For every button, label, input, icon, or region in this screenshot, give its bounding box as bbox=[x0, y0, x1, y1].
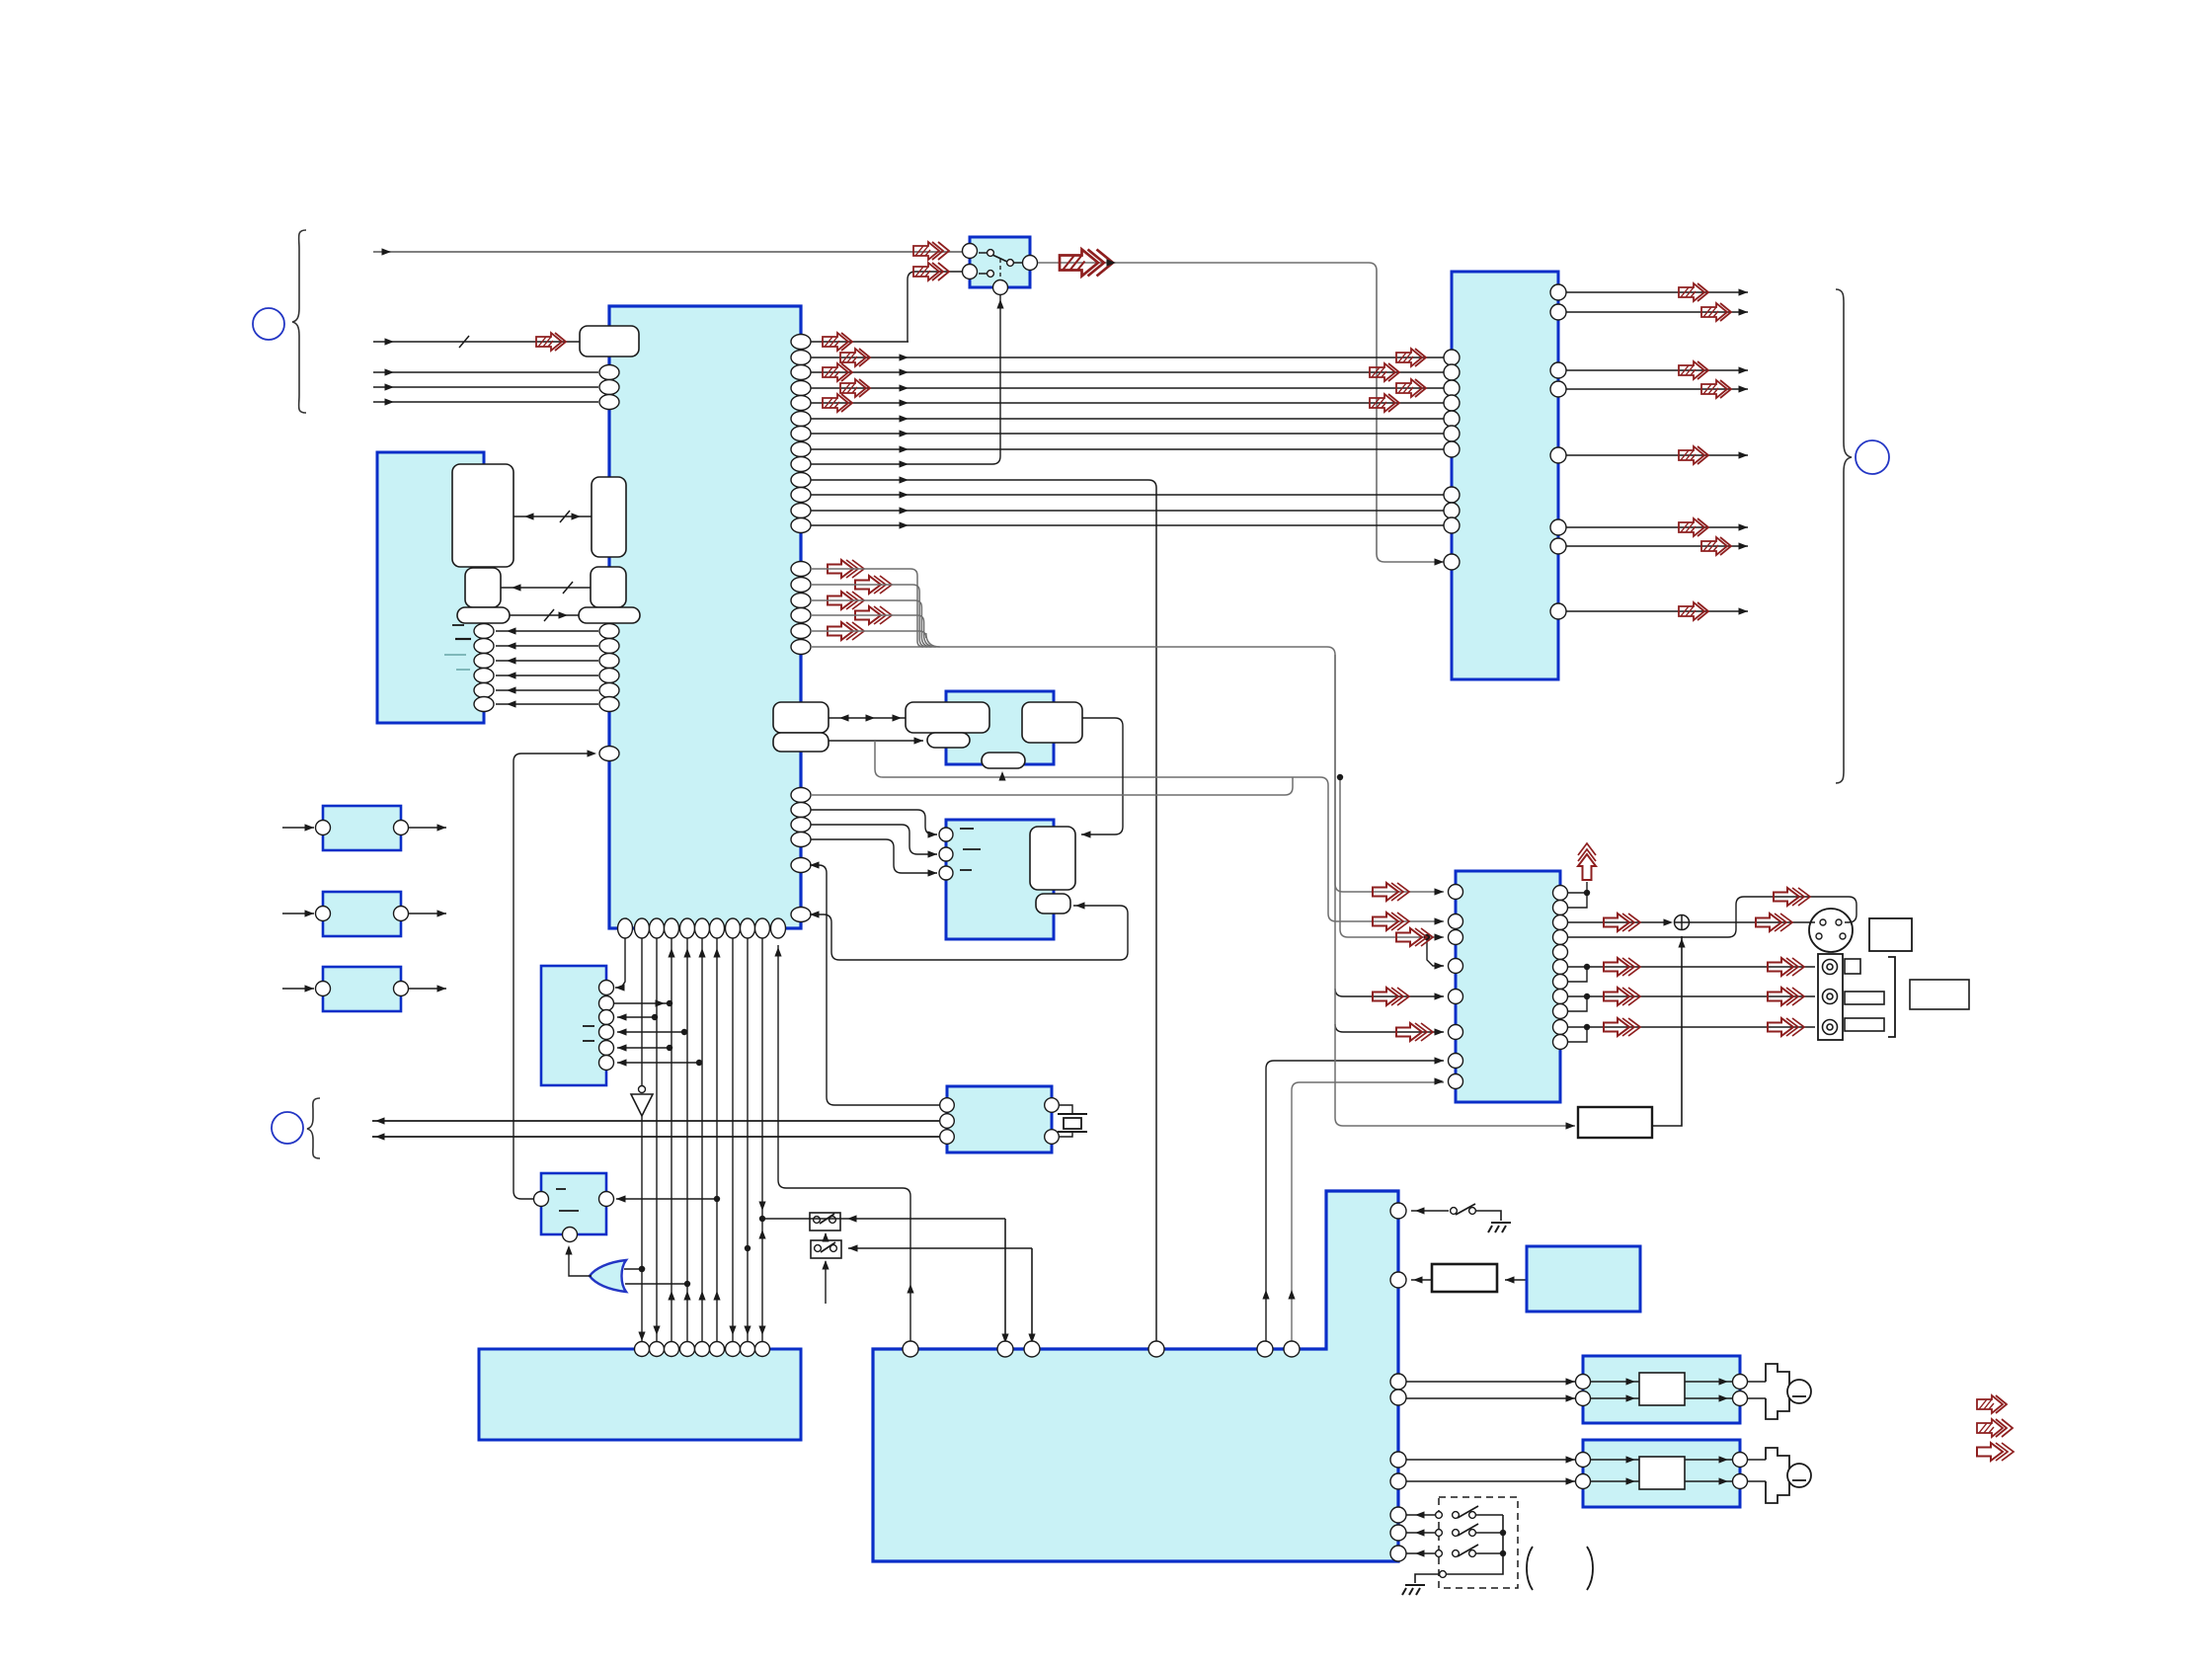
amp2 spk wire 1 bbox=[1748, 1459, 1766, 1461]
speaker symbol 1 bbox=[1766, 1364, 1789, 1419]
serial wire 2 bbox=[811, 585, 927, 647]
amp1 out wire 2 bbox=[1685, 1397, 1732, 1399]
bus ctrl bbox=[510, 614, 579, 616]
mux switch block bbox=[970, 237, 1030, 287]
keyboard pin 2 bbox=[650, 1342, 665, 1357]
label dash d3 bbox=[444, 654, 466, 656]
arrowhead sensor block 3 in bbox=[305, 985, 315, 992]
arrowhead mem 3 bbox=[507, 657, 516, 664]
xlr connector bbox=[1809, 909, 1853, 952]
IC bottom pin 2 bbox=[635, 918, 650, 938]
arrowhead IC-F g2 1 bbox=[900, 491, 909, 498]
DAC right pin 4 bbox=[1553, 930, 1568, 945]
trunk keyboard 9 bbox=[761, 938, 763, 1341]
IC left pin clk3 bbox=[599, 395, 619, 410]
amp2 wire in 1 bbox=[1406, 1459, 1575, 1461]
rca small square bbox=[1845, 959, 1860, 974]
arrowhead IC-F 5 bbox=[900, 415, 909, 422]
amp1 out wire 1 bbox=[1685, 1381, 1732, 1383]
arrowhead relay1 feed bbox=[1001, 1334, 1008, 1344]
remote lever 3 bbox=[1458, 1545, 1478, 1556]
serial wire 5 bbox=[811, 631, 940, 647]
mux pin in2 bbox=[963, 265, 978, 279]
arrowhead servo 1 bbox=[928, 831, 938, 837]
remote gnd contact bbox=[1440, 1571, 1447, 1578]
ground remote bbox=[1402, 1585, 1425, 1595]
expander right pin 8 bbox=[1550, 603, 1566, 619]
IC left mem pin 6 bbox=[599, 697, 619, 712]
arrowhead input A bbox=[382, 248, 392, 255]
wire pll bidir bbox=[829, 717, 906, 719]
relay select 2 bbox=[825, 1261, 827, 1304]
arrowhead amp2 g2 bbox=[1626, 1477, 1636, 1484]
IC right pin g2-3 bbox=[791, 594, 811, 608]
trunk inverter upper bbox=[641, 938, 643, 1086]
arrowhead remote 2 bbox=[1415, 1529, 1425, 1536]
rca label 3 bbox=[1845, 1018, 1884, 1031]
bus slash addr bbox=[560, 511, 570, 522]
expander left pin 4 bbox=[1444, 395, 1460, 411]
arrowhead G3 bbox=[617, 1013, 627, 1020]
junction dac out1 bbox=[1584, 890, 1590, 896]
wire IC-F g2 1 bbox=[811, 494, 1444, 496]
IC pin box pll b bbox=[773, 733, 829, 752]
arrowhead keyboard 8 bbox=[744, 1326, 750, 1336]
mute control block bbox=[541, 1173, 606, 1234]
arrowhead mux out mid bbox=[1107, 259, 1117, 266]
remote join 1 bbox=[1475, 1514, 1503, 1516]
wire G4 in bbox=[617, 1031, 684, 1033]
amp2 right pin 1 bbox=[1733, 1453, 1748, 1468]
resistor network box bbox=[1578, 1107, 1652, 1138]
arrowhead IC-F g2 2 bbox=[900, 507, 909, 514]
ground power switch bbox=[1488, 1223, 1511, 1232]
expander out wire 6 bbox=[1566, 526, 1748, 528]
mute pin bottom bbox=[563, 1228, 578, 1242]
power top pin 5 bbox=[1257, 1341, 1273, 1357]
remote join 3 bbox=[1475, 1552, 1503, 1554]
DAC left pin 7 bbox=[1449, 1054, 1463, 1069]
signal arrow DAC in 6 bbox=[1396, 1023, 1433, 1041]
arrowhead amp1 o1 bbox=[1719, 1378, 1729, 1385]
wire w4 to servo bbox=[1081, 718, 1123, 834]
power right pin 2 bbox=[1390, 1272, 1406, 1288]
IC right pin g1-1 bbox=[791, 335, 811, 350]
junction relay1 tap bbox=[759, 1216, 765, 1222]
arrowhead IC-F 7 bbox=[900, 445, 909, 452]
junction or input1 bbox=[639, 1266, 645, 1272]
expander left pin g2-2 bbox=[1444, 503, 1460, 518]
arrowhead into IC lcd pin bbox=[588, 750, 597, 756]
wire resistor to sum bbox=[1652, 936, 1682, 1126]
trunk keyboard 8 bbox=[747, 938, 749, 1341]
relay1 c2 bbox=[829, 1217, 836, 1224]
speaker circle 2 bbox=[1787, 1464, 1811, 1487]
pin label xtal in bbox=[580, 326, 639, 357]
xtal oscillator block bbox=[947, 1086, 1052, 1152]
arrowhead or to mute bbox=[565, 1245, 572, 1255]
arrowhead IC-F 6 bbox=[900, 430, 909, 437]
power switch c2 bbox=[1469, 1208, 1476, 1215]
legend arrow type C bbox=[1977, 1443, 2014, 1461]
xlr pin 3 bbox=[1816, 933, 1822, 939]
mux contact a bbox=[987, 250, 994, 257]
bus wire IC-F 4 bbox=[811, 402, 1444, 404]
expander right pin 2 bbox=[1550, 304, 1566, 320]
arrowhead into pll box3 bbox=[998, 771, 1005, 781]
key input block bbox=[479, 1349, 801, 1440]
arrowhead into mute bbox=[616, 1195, 626, 1202]
legend arrow type A bbox=[1977, 1395, 2007, 1413]
arrowhead trunk9 down bbox=[758, 1202, 765, 1212]
signal arrow rca 3 b bbox=[1768, 1018, 1804, 1036]
sum node bbox=[1675, 915, 1690, 930]
arrowhead data left bbox=[512, 584, 521, 591]
wire input E bbox=[373, 401, 598, 403]
keyboard pin 7 bbox=[726, 1342, 741, 1357]
IC right pin g1-4 bbox=[791, 381, 811, 396]
arrowhead input C bbox=[385, 368, 395, 375]
mux contact c bbox=[1007, 260, 1014, 267]
arrowhead keyboard up2 6 bbox=[713, 948, 720, 958]
expander left pin 6 bbox=[1444, 426, 1460, 441]
IC bottom pin 4 bbox=[665, 918, 679, 938]
amplifier block 1 bbox=[1583, 1356, 1740, 1423]
power right pin 9 bbox=[1390, 1546, 1406, 1561]
arrowhead into resistor bbox=[1505, 1276, 1515, 1283]
RAM label box bbox=[452, 464, 513, 567]
arrowhead expander out 4 bbox=[1739, 385, 1749, 392]
signal arrow row4 bbox=[840, 379, 870, 397]
IC bottom pin 3 bbox=[650, 918, 665, 938]
sensor block 3 pin out bbox=[394, 982, 409, 996]
IC right pin g2-6 bbox=[791, 640, 811, 655]
DAC right pin 6 bbox=[1553, 960, 1568, 975]
arrowhead into servo box bbox=[1081, 831, 1091, 837]
display bus line 1 bbox=[372, 1120, 939, 1122]
arrowhead amp1 o2 bbox=[1719, 1394, 1729, 1401]
serial wire 3 bbox=[811, 600, 931, 647]
mute pin right bbox=[599, 1192, 614, 1207]
crystal plate bottom bbox=[1058, 1131, 1087, 1133]
signal arrow rca 1 a bbox=[1604, 958, 1640, 976]
arrowhead relay sel1 bbox=[822, 1232, 829, 1242]
amp1 wire in 1 bbox=[1406, 1381, 1575, 1383]
D right pin 4 bbox=[474, 669, 494, 683]
signal arrow exp out 3 bbox=[1679, 361, 1708, 379]
G pin 6 bbox=[599, 1056, 614, 1071]
servo pin 3 bbox=[939, 866, 953, 880]
relay1 feed vert bbox=[1004, 1219, 1006, 1349]
D right pin 2 bbox=[474, 639, 494, 654]
brace input group bbox=[292, 230, 306, 413]
signal arrow rca 2 a bbox=[1604, 988, 1640, 1005]
IC right pin g1-13 bbox=[791, 518, 811, 533]
mux wire in2 elbow bbox=[908, 272, 963, 342]
wire row10 trunk bbox=[811, 480, 1156, 1349]
sensor block 2 wire out bbox=[409, 913, 446, 914]
relay select 1 bbox=[825, 1233, 827, 1237]
mute pin left bbox=[534, 1192, 549, 1207]
signal arrow row2 bbox=[840, 349, 870, 366]
arrowhead amp2 in1 bbox=[1566, 1456, 1576, 1463]
remote c1b bbox=[1453, 1512, 1460, 1519]
expander out wire 4 bbox=[1566, 388, 1748, 390]
arrowhead input B bbox=[385, 338, 395, 345]
arrowhead display 2 bbox=[375, 1133, 385, 1140]
arrowhead into expander pin bbox=[1435, 558, 1445, 565]
mux out stub bbox=[1013, 262, 1023, 264]
sense return bbox=[778, 945, 910, 1341]
node circle display bbox=[272, 1112, 303, 1144]
relay box 1 bbox=[810, 1213, 840, 1231]
wire xtal osc to IC bbox=[810, 865, 940, 1105]
amp1 right pin 2 bbox=[1733, 1391, 1748, 1406]
bracket right bbox=[1888, 957, 1895, 1037]
xlr pin 1 bbox=[1820, 919, 1826, 925]
wire rca stub 3 bbox=[1568, 1027, 1587, 1042]
arrowhead amp2 o2 bbox=[1719, 1477, 1729, 1484]
wire mem 4 bbox=[496, 675, 598, 676]
IC pin box ctrl bbox=[579, 607, 640, 623]
G pin 3 bbox=[599, 1010, 614, 1025]
G pin 5 bbox=[599, 1041, 614, 1056]
mute dash 1 bbox=[556, 1188, 566, 1190]
signal arrow xlr top bbox=[1756, 913, 1792, 931]
DAC right pin 10 bbox=[1553, 1020, 1568, 1035]
arrowhead sensor block 1 out bbox=[437, 824, 447, 831]
K pin 2 bbox=[940, 1114, 955, 1129]
IC right pin g2-1 bbox=[791, 562, 811, 577]
junction inverter or bbox=[639, 1266, 645, 1272]
expander left pin 2 bbox=[1444, 364, 1460, 380]
arrowhead IC-F 4 bbox=[900, 399, 909, 406]
junction relay2 tap bbox=[745, 1245, 750, 1251]
arrowhead keyboard up 6 bbox=[713, 1291, 720, 1301]
arrowhead amp1 in2 bbox=[1566, 1394, 1576, 1401]
amp1 int wire 1 bbox=[1591, 1381, 1639, 1383]
bus wire IC-F 2 bbox=[811, 371, 1444, 373]
remote c1a bbox=[1436, 1512, 1443, 1519]
amplifier block 2 bbox=[1583, 1440, 1740, 1507]
arrowhead servo 2 bbox=[928, 850, 938, 857]
PLL block bbox=[946, 691, 1054, 764]
junction trunk mute bbox=[714, 1196, 720, 1202]
arrowhead display 1 bbox=[375, 1117, 385, 1124]
crystal body bbox=[1064, 1118, 1081, 1129]
arrowhead IC-F g2 3 bbox=[900, 521, 909, 528]
trunk keyboard 4 bbox=[686, 938, 688, 1341]
arrowhead dac row6 bbox=[1435, 1028, 1445, 1035]
servo block bbox=[946, 820, 1054, 939]
junction dac row3 top bbox=[1337, 774, 1343, 780]
arrowhead addr right bbox=[572, 513, 582, 519]
label dash d1 bbox=[452, 624, 464, 626]
sensor block 1 bbox=[323, 806, 401, 850]
DAC left pin 6 bbox=[1449, 1025, 1463, 1040]
rca label 2 bbox=[1845, 992, 1884, 1004]
arrowhead dac row7 bbox=[1435, 1057, 1445, 1064]
display driver block bbox=[541, 966, 606, 1085]
wire IC-F g2 2 bbox=[811, 510, 1444, 512]
wire dac row3 bbox=[1340, 777, 1444, 937]
bus wire IC-F 6 bbox=[811, 433, 1444, 435]
signal arrow exp out 4 bbox=[1701, 380, 1731, 398]
arrowhead keyboard 2 bbox=[653, 1326, 660, 1336]
arrowhead pll mid bbox=[866, 714, 876, 721]
remote gnd wire bbox=[1415, 1574, 1439, 1583]
remote c2a bbox=[1436, 1530, 1443, 1537]
legend arrow type B bbox=[1977, 1419, 2013, 1437]
crystal lead bottom bbox=[1060, 1132, 1072, 1137]
IC right pin g1-5 bbox=[791, 396, 811, 411]
paren right bbox=[1587, 1547, 1593, 1590]
wire row1 to mux bbox=[811, 341, 908, 343]
node circle output bbox=[1856, 440, 1889, 474]
keyboard pin 3 bbox=[665, 1342, 679, 1357]
IC bottom pin 6 bbox=[695, 918, 710, 938]
arrowhead input D bbox=[385, 383, 395, 390]
wire input B to osc box bbox=[373, 341, 580, 343]
IC bottom pin 1 bbox=[618, 918, 633, 938]
trunk inverter lower bbox=[641, 1116, 643, 1341]
D right pin 5 bbox=[474, 683, 494, 698]
sensor block 2 pin in bbox=[316, 907, 331, 921]
sensor block 3 pin in bbox=[316, 982, 331, 996]
expander out wire 8 bbox=[1566, 610, 1748, 612]
arrowhead amp2 g1 bbox=[1626, 1456, 1636, 1463]
signal arrow DAC in 3 bbox=[1396, 928, 1433, 946]
expander left pin 7 bbox=[1444, 441, 1460, 457]
power top pin 4 bbox=[1148, 1341, 1164, 1357]
signal arrow exp out 1 bbox=[1679, 283, 1708, 301]
arrowhead mem 2 bbox=[507, 642, 516, 649]
arrowhead amp1 g2 bbox=[1626, 1394, 1636, 1401]
mux in2 stub bbox=[979, 273, 987, 275]
arrowhead sensor block 2 out bbox=[437, 910, 447, 916]
wire rca out 2 bbox=[1568, 995, 1815, 997]
IC right pin g1-11 bbox=[791, 488, 811, 503]
servo pin 1 bbox=[939, 828, 953, 841]
arrowhead into w6 bbox=[1075, 902, 1085, 909]
arrowhead IC-F 3 bbox=[900, 384, 909, 391]
arrowhead mux select bbox=[996, 299, 1003, 309]
K pin 1 bbox=[940, 1098, 955, 1113]
arrowhead row9 bbox=[900, 460, 909, 467]
expander left pin single bbox=[1444, 554, 1460, 570]
arrowhead pll b bbox=[914, 737, 924, 744]
amp1 int wire 2 bbox=[1591, 1397, 1639, 1399]
mute dash 2 bbox=[559, 1210, 579, 1212]
amp1 spk wire 2 bbox=[1748, 1397, 1766, 1399]
trunk keyboard 6 bbox=[716, 938, 718, 1341]
arrowhead mem 4 bbox=[507, 672, 516, 678]
bus wire IC-F 3 bbox=[811, 387, 1444, 389]
wire dac sum row bbox=[1568, 921, 1667, 923]
power switch lever bbox=[1456, 1204, 1475, 1215]
IC right pin g1-6 bbox=[791, 412, 811, 427]
IC right pin g1-12 bbox=[791, 504, 811, 518]
signal arrow mux out bbox=[1060, 250, 1113, 277]
junction G3 bbox=[652, 1014, 658, 1020]
expander out wire 5 bbox=[1566, 454, 1748, 456]
keyboard pin 1 bbox=[635, 1342, 650, 1357]
IC right pin g1-10 bbox=[791, 473, 811, 488]
wire or input 1 bbox=[624, 1268, 642, 1270]
wire G2 out bbox=[614, 1002, 670, 1004]
relay1 lever bbox=[820, 1214, 834, 1224]
arrowhead remote 3 bbox=[1415, 1549, 1425, 1556]
serial wire 1 bbox=[811, 569, 923, 647]
wire input C bbox=[373, 371, 598, 373]
DAC left pin 4 bbox=[1449, 959, 1463, 974]
amp1 spk wire 1 bbox=[1748, 1381, 1766, 1383]
servo dash 3 bbox=[960, 869, 972, 871]
sensor block 2 wire in bbox=[282, 913, 314, 914]
arrowhead mem 5 bbox=[507, 686, 516, 693]
signal arrow DAC in 2 bbox=[1373, 913, 1409, 930]
relay box 2 bbox=[811, 1240, 841, 1258]
IC right pin g1-2 bbox=[791, 351, 811, 365]
sensor block 1 wire out bbox=[409, 827, 446, 829]
wire servo in 1 bbox=[811, 810, 937, 834]
amp1 wire in 2 bbox=[1406, 1397, 1575, 1399]
IC pin box pll a bbox=[773, 702, 829, 733]
wire power to resistor bbox=[1411, 1279, 1432, 1281]
arrowhead expander out 1 bbox=[1739, 288, 1749, 295]
wire IC to mute bbox=[513, 754, 592, 1199]
sensor block 1 wire in bbox=[282, 827, 314, 829]
remote c2c bbox=[1469, 1530, 1476, 1537]
arrowhead into DAC pin2 bbox=[1435, 917, 1445, 924]
sensor block 3 bbox=[323, 967, 401, 1011]
expander right pin 5 bbox=[1550, 447, 1566, 463]
trunk keyboard 7 bbox=[732, 938, 734, 1341]
IC left mem pin 4 bbox=[599, 669, 619, 683]
paren left bbox=[1527, 1547, 1533, 1590]
junction remote 2 bbox=[1500, 1530, 1506, 1536]
amp1 left pin 2 bbox=[1576, 1391, 1591, 1406]
memory block bbox=[377, 452, 484, 723]
amp2 out wire 2 bbox=[1685, 1480, 1732, 1482]
wire row9 to mux select bbox=[811, 295, 1000, 464]
signal arrow rca 3 a bbox=[1604, 1018, 1640, 1036]
inverter triangle bbox=[631, 1094, 653, 1116]
signal arrow serial 2 bbox=[855, 576, 892, 594]
label dash d4 bbox=[456, 669, 470, 671]
wire dac row6 bbox=[1335, 1024, 1444, 1032]
DC-DC converter block bbox=[1527, 1246, 1640, 1311]
rca jack 2 bbox=[1823, 990, 1838, 1004]
sensor block 2 pin out bbox=[394, 907, 409, 921]
IC left pin lcd bbox=[599, 747, 619, 761]
amp2 int wire 1 bbox=[1591, 1459, 1639, 1461]
wire rca stub 1 bbox=[1568, 967, 1587, 982]
crystal lead top bbox=[1060, 1105, 1072, 1114]
arrowhead G6 bbox=[617, 1059, 627, 1066]
bus data bbox=[501, 587, 591, 589]
wire servo in 3 bbox=[811, 839, 937, 873]
remote wire 3 bbox=[1406, 1552, 1435, 1554]
arrowhead amp1 in1 bbox=[1566, 1378, 1576, 1385]
trunk to G pin1 bbox=[615, 938, 625, 988]
expander left pin 1 bbox=[1444, 350, 1460, 365]
trunk keyboard 2 bbox=[656, 938, 658, 1341]
arrowhead keyboard up 3 bbox=[668, 1291, 674, 1301]
K right pin 1 bbox=[1045, 1098, 1060, 1113]
main IC system controller bbox=[609, 306, 801, 928]
power right pin 8 bbox=[1390, 1525, 1406, 1541]
